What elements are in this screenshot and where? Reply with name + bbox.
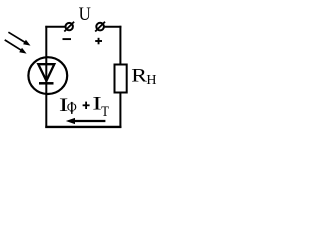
label F subscript xyxy=(67,100,77,116)
resistor RH body xyxy=(115,65,127,93)
light arrow 2 xyxy=(5,40,27,54)
svg-text:U: U xyxy=(79,3,91,24)
label minus xyxy=(63,38,72,40)
wire top right segment xyxy=(104,26,121,28)
label I dark current xyxy=(92,93,102,114)
photodiode cathode bar xyxy=(39,82,54,85)
label R xyxy=(131,64,148,85)
photodiode circle xyxy=(28,57,67,94)
label U xyxy=(79,3,91,24)
wire bottom xyxy=(45,126,121,128)
svg-text:Т: Т xyxy=(101,104,109,120)
photodiode triangle anode xyxy=(38,64,54,81)
wire left vertical xyxy=(45,26,47,128)
label H subscript xyxy=(146,73,156,88)
wire right vertical upper xyxy=(119,26,121,65)
label I photo current xyxy=(59,95,69,116)
terminal plus of source U xyxy=(95,22,105,32)
wire right vertical lower xyxy=(119,93,121,128)
current direction arrow xyxy=(66,118,106,124)
label plus xyxy=(95,38,102,45)
label T subscript xyxy=(101,104,109,120)
light arrow 1 xyxy=(8,32,30,45)
svg-text:Н: Н xyxy=(146,73,156,88)
svg-text:R: R xyxy=(131,64,148,85)
label plus between currents xyxy=(83,102,90,109)
terminal minus of source U xyxy=(64,22,74,32)
wire top left segment xyxy=(45,26,65,28)
